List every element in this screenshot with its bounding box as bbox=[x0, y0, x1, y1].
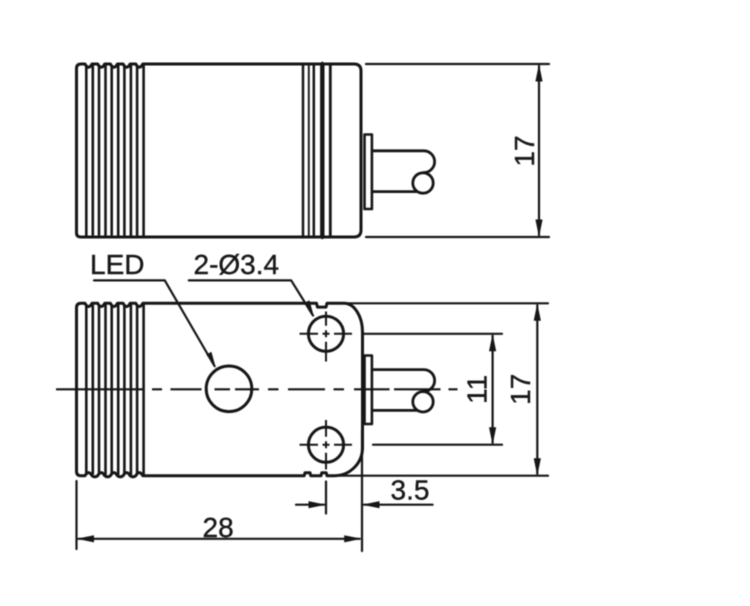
dimension 11 : dimension line bbox=[492, 336, 494, 443]
LED circle bbox=[206, 366, 252, 412]
top view body outline bbox=[77, 64, 362, 237]
bottom view knurl rib lines bbox=[86, 304, 143, 474]
mounting hole bottom crosshair horizontal bbox=[300, 444, 353, 446]
svg-text:11: 11 bbox=[462, 375, 493, 404]
bottom view plug lower edge bbox=[373, 409, 417, 412]
mounting hole top crosshair horizontal bbox=[300, 333, 353, 335]
dimension 3.5 : arrow pointing left bbox=[362, 501, 380, 508]
dimension 17 bottom view : arrow down bbox=[534, 458, 541, 476]
dimension 17 top view : arrow up bbox=[535, 64, 542, 82]
bottom view plug pin circle bbox=[413, 392, 433, 412]
svg-text:LED: LED bbox=[90, 249, 144, 280]
dimension 3.5 : right dimension line bbox=[364, 504, 433, 506]
top view plug pin circle bbox=[413, 173, 433, 193]
mounting hole bottom circle bbox=[308, 427, 343, 462]
dimension 3.5 : extension line at hole axis bbox=[296, 430, 433, 551]
dimension 28 : arrow left bbox=[77, 535, 95, 542]
mounting hole top crosshair vertical bbox=[325, 312, 327, 362]
bottom view body outline bbox=[77, 303, 363, 477]
bottom view connector flange bbox=[365, 356, 372, 425]
top view ring groove lines bbox=[303, 64, 330, 237]
svg-text:3.5: 3.5 bbox=[391, 475, 430, 506]
dimension 17 bottom view : arrow up bbox=[534, 303, 541, 321]
svg-text:2-Ø3.4: 2-Ø3.4 bbox=[194, 249, 280, 280]
dimension 11 : arrow up bbox=[489, 334, 496, 352]
centerline axis bbox=[56, 388, 458, 390]
dimension 11 : extension lines bbox=[364, 334, 502, 445]
mounting hole top circle bbox=[308, 316, 343, 351]
bottom view connector plug bbox=[373, 370, 435, 392]
dimension 17 top view : dimension line bbox=[538, 66, 540, 235]
svg-text:17: 17 bbox=[509, 135, 540, 166]
svg-text:17: 17 bbox=[505, 374, 536, 405]
top view connector plug bbox=[373, 151, 435, 173]
label LED leader arrowhead bbox=[206, 352, 216, 369]
dimension 17 bottom view : extension lines bbox=[340, 303, 548, 475]
dimension 3.5 : left dimension line bbox=[296, 504, 324, 506]
dimension 17 top view : extension lines bbox=[366, 64, 549, 237]
dimension 28 : arrow right bbox=[344, 535, 362, 542]
dimension 17 top view : arrow down bbox=[535, 220, 542, 238]
top view plug lower edge bbox=[373, 190, 417, 193]
mounting hole bottom crosshair vertical bbox=[325, 420, 327, 470]
dimension 28 : dimension line bbox=[79, 538, 360, 540]
top view connector flange bbox=[365, 135, 372, 210]
svg-text:28: 28 bbox=[203, 512, 234, 543]
label LED leader line bbox=[94, 280, 215, 366]
label 2-dia3.4 leader line bbox=[189, 280, 313, 315]
dimension 17 bottom view : dimension line bbox=[536, 305, 538, 473]
dimension 28 : extension line left bbox=[77, 481, 360, 549]
dimension 3.5 : extension of body right edge bbox=[361, 430, 363, 551]
top view knurl rib lines bbox=[86, 65, 143, 236]
label 2-dia3.4 leader arrowhead bbox=[304, 300, 314, 317]
dimension 3.5 : arrow pointing right bbox=[309, 501, 327, 508]
dimension 11 : arrow down bbox=[489, 427, 496, 445]
